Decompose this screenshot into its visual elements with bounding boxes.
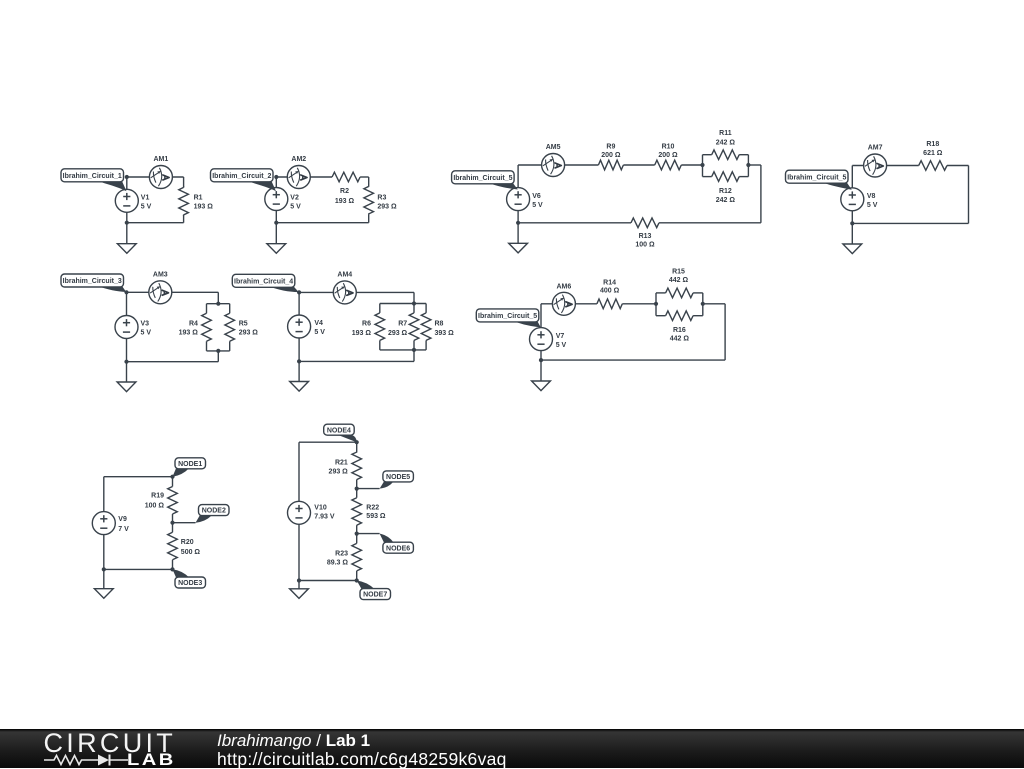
svg-text:5 V: 5 V: [532, 202, 543, 209]
svg-text:AM5: AM5: [546, 144, 561, 151]
wire R20 top lead: [172, 523, 174, 533]
wire top (V7 to R14): [541, 303, 597, 305]
net flag NODE6: [383, 542, 414, 553]
wire V7 branch: [540, 304, 542, 360]
wire R12 left lead: [703, 176, 712, 178]
circuit Ibrahim_Circuit_5 (V8): [786, 141, 969, 253]
flag tail NODE4: [338, 435, 357, 442]
svg-text:193 Ω: 193 Ω: [335, 198, 355, 205]
svg-text:Ibrahim_Circuit_4: Ibrahim_Circuit_4: [234, 278, 293, 285]
svg-text:R19: R19: [151, 493, 164, 500]
wire R21 top lead: [356, 442, 358, 452]
net flag NODE7: [360, 589, 391, 600]
svg-text:593 Ω: 593 Ω: [366, 513, 386, 520]
svg-text:193 Ω: 193 Ω: [352, 330, 372, 337]
voltage source V7 5 V: [530, 328, 553, 351]
svg-text:NODE1: NODE1: [178, 461, 202, 468]
net flag NODE5: [383, 471, 414, 482]
svg-text:293 Ω: 293 Ω: [329, 469, 349, 476]
node junction (V3 top): [124, 290, 128, 294]
svg-text:7.93 V: 7.93 V: [314, 514, 335, 521]
flag tail NODE2: [196, 515, 212, 522]
ammeter AM7: [864, 154, 887, 177]
resistor R3: [364, 186, 374, 214]
wire NODE2 stub: [173, 522, 196, 524]
svg-text:V3: V3: [141, 321, 150, 328]
node NODE5 junction: [355, 487, 359, 491]
voltage source V8 5 V: [841, 188, 864, 211]
wire NODE5 stub: [357, 488, 380, 490]
node junction (parallel right): [701, 302, 705, 306]
wire R21 bottom lead: [356, 480, 358, 489]
wire right side down: [760, 165, 762, 223]
ground (circuit V6): [509, 243, 528, 253]
wire pair top bar: [207, 303, 230, 305]
svg-text:293 Ω: 293 Ω: [388, 330, 408, 337]
node junction (V9 bottom): [102, 567, 106, 571]
footer url: [217, 751, 507, 768]
wire NODE6 stub: [357, 533, 380, 535]
svg-text:AM3: AM3: [153, 271, 168, 278]
wire V8 branch: [851, 166, 853, 224]
node junction (parallel left): [654, 302, 658, 306]
wire to right corner: [748, 164, 761, 166]
svg-text:293 Ω: 293 Ω: [377, 204, 397, 211]
ammeter AM5: [542, 154, 565, 177]
net flag NODE3: [175, 577, 206, 588]
svg-text:V8: V8: [867, 193, 876, 200]
voltage source V3 5 V: [115, 316, 138, 339]
resistor R12: [712, 172, 740, 182]
svg-text:R9: R9: [606, 144, 615, 151]
flag tail Ibrahim_Circuit_3: [97, 285, 126, 292]
svg-text:NODE5: NODE5: [386, 474, 410, 481]
ground (circuit V7): [532, 381, 551, 391]
svg-text:193 Ω: 193 Ω: [179, 330, 199, 337]
resistor R7: [409, 313, 419, 341]
wire R19 top lead: [172, 477, 174, 487]
node NODE1 junction: [170, 475, 174, 479]
net flag NODE1: [175, 458, 206, 469]
resistor R9: [598, 160, 623, 170]
ammeter AM2: [287, 166, 310, 189]
svg-text:Ibrahim_Circuit_3: Ibrahim_Circuit_3: [63, 278, 122, 285]
wire V9 branch: [103, 477, 105, 570]
node NODE7 junction: [355, 578, 359, 582]
footer bar: [0, 729, 1024, 768]
svg-text:R13: R13: [639, 233, 652, 240]
svg-text:R14: R14: [603, 279, 616, 286]
svg-text:R6: R6: [362, 321, 371, 328]
wire to right corner: [703, 303, 725, 305]
wire ground lead: [298, 581, 300, 589]
ground (circuit 3): [117, 382, 136, 392]
svg-text:621 Ω: 621 Ω: [923, 150, 943, 157]
net flag Ibrahim_Circuit_5 (V8): [786, 170, 849, 183]
resistor R18: [919, 161, 947, 171]
node junction (bank bottom): [412, 348, 416, 352]
svg-text:AM2: AM2: [291, 156, 306, 163]
wire R5 bottom lead: [229, 341, 231, 351]
net flag NODE4: [324, 424, 355, 435]
flag tail NODE7: [357, 581, 375, 590]
ground (circuit V8): [843, 244, 862, 254]
circuit Ibrahim_Circuit_4: [232, 271, 454, 391]
wire bottom return: [104, 568, 173, 570]
wire bottom return: [127, 222, 184, 224]
wire top (V3 to pair): [127, 291, 219, 293]
wire parallel left bar: [655, 293, 657, 316]
wire R6 bottom lead: [379, 340, 381, 350]
svg-text:R15: R15: [672, 268, 685, 275]
svg-text:400 Ω: 400 Ω: [600, 288, 620, 295]
svg-text:R7: R7: [398, 321, 407, 328]
node junction (pair bottom): [216, 349, 220, 353]
net flag Ibrahim_Circuit_4: [232, 274, 294, 287]
ammeter AM3: [149, 281, 172, 304]
svg-text:R16: R16: [673, 327, 686, 334]
circuit Ibrahim_Circuit_5 (V6): [452, 130, 761, 253]
wire R7 top lead: [413, 304, 415, 313]
svg-text:242 Ω: 242 Ω: [716, 197, 736, 204]
wire R8 bottom lead: [425, 340, 427, 350]
node junction (parallel right): [746, 163, 750, 167]
CircuitLab logo text CIRCUIT: [44, 733, 177, 754]
ground (circuit 1): [117, 244, 136, 254]
resistor R14: [597, 299, 622, 309]
node junction (V7 bottom): [539, 358, 543, 362]
svg-text:5 V: 5 V: [141, 204, 152, 211]
net flag Ibrahim_Circuit_2: [211, 169, 274, 182]
wire R8 top lead: [425, 304, 427, 313]
svg-text:R4: R4: [189, 321, 198, 328]
wire bottom return: [852, 222, 968, 224]
wire R14 to parallel pair: [622, 303, 656, 305]
net flag Ibrahim_Circuit_1: [61, 169, 124, 182]
wire bottom return: [299, 580, 357, 582]
wire ground lead: [298, 361, 300, 381]
voltage source V10 7.93 V: [288, 501, 311, 524]
svg-text:Ibrahim_Circuit_5: Ibrahim_Circuit_5: [478, 313, 537, 320]
wire ground lead: [517, 223, 519, 244]
net flag Ibrahim_Circuit_5 (V7): [476, 309, 539, 322]
wire V6 branch: [517, 165, 519, 223]
node junction (V4 top): [297, 290, 301, 294]
wire V4 branch: [298, 292, 300, 361]
wire ground lead: [851, 223, 853, 244]
circuit Ibrahim_Circuit_1: [61, 156, 213, 254]
node junction (V10 bottom): [297, 578, 301, 582]
resistor R10: [655, 160, 682, 170]
svg-text:R22: R22: [366, 505, 379, 512]
wire V10 branch: [298, 442, 300, 580]
wire ground lead: [126, 223, 128, 244]
wire bottom return: [276, 222, 368, 224]
wire bottom return: [541, 359, 725, 361]
wire ground lead: [103, 569, 105, 588]
wire R1 top lead: [183, 177, 185, 188]
svg-text:R1: R1: [194, 195, 203, 202]
svg-text:V10: V10: [314, 505, 327, 512]
ground (V9 divider): [94, 589, 113, 599]
node junction (V4 bottom): [297, 359, 301, 363]
svg-text:R2: R2: [340, 188, 349, 195]
wire R23 bottom lead: [356, 571, 358, 581]
wire R7 bottom lead: [413, 340, 415, 350]
flag tail NODE6: [380, 534, 394, 543]
svg-text:R18: R18: [926, 141, 939, 148]
node junction (V2 bottom): [274, 221, 278, 225]
wire R11 left lead: [703, 154, 712, 156]
wire R5 top lead: [229, 304, 231, 314]
wire R11 right lead: [739, 154, 748, 156]
wire R1 bottom lead: [183, 215, 185, 223]
svg-text:R8: R8: [435, 321, 444, 328]
wire R3 bottom lead: [368, 214, 370, 223]
svg-text:Ibrahim_Circuit_5: Ibrahim_Circuit_5: [787, 174, 846, 181]
flag tail Ibrahim_Circuit_5 (V7): [512, 320, 540, 327]
circuit Ibrahim_Circuit_2: [211, 156, 398, 254]
wire R10 to parallel pair: [681, 164, 702, 166]
node junction (V1 top): [125, 175, 129, 179]
node junction (V2 top): [274, 175, 278, 179]
svg-text:293 Ω: 293 Ω: [239, 330, 259, 337]
wire ground lead: [275, 223, 277, 244]
svg-text:100 Ω: 100 Ω: [635, 242, 655, 249]
node junction (parallel left): [700, 163, 704, 167]
ammeter AM6: [552, 292, 575, 315]
svg-text:442 Ω: 442 Ω: [669, 277, 689, 284]
wire R6 top lead: [379, 304, 381, 313]
node junction (V6 bottom): [516, 221, 520, 225]
wire parallel right bar: [702, 293, 704, 316]
flag tail Ibrahim_Circuit_5 (V8): [822, 181, 852, 189]
wire R18 to corner: [947, 165, 969, 167]
wire down to pair top: [217, 292, 219, 303]
flag tail Ibrahim_Circuit_2: [247, 180, 277, 191]
wire top (V10 to R21): [299, 441, 357, 443]
svg-text:NODE3: NODE3: [178, 580, 202, 587]
wire R23 top lead: [356, 534, 358, 544]
svg-text:R10: R10: [662, 144, 675, 151]
svg-text:NODE6: NODE6: [386, 545, 410, 552]
voltage source V1 5 V: [115, 189, 138, 212]
svg-text:200 Ω: 200 Ω: [658, 152, 678, 159]
svg-text:R20: R20: [181, 539, 194, 546]
wire R22 bottom lead: [356, 525, 358, 533]
resistor R15: [666, 288, 694, 298]
resistor R11: [712, 150, 740, 160]
node junction (V8 bottom): [850, 221, 854, 225]
svg-text:NODE4: NODE4: [327, 427, 351, 434]
wire R19 bottom lead: [172, 514, 174, 523]
voltage source V9 7 V: [92, 512, 115, 535]
svg-text:AM4: AM4: [337, 271, 352, 278]
svg-text:AM6: AM6: [557, 284, 572, 291]
svg-text:442 Ω: 442 Ω: [670, 335, 690, 342]
wire top (V1 to R1): [127, 176, 184, 178]
svg-text:R23: R23: [335, 551, 348, 558]
resistor R13: [631, 218, 659, 228]
wire parallel left bar: [702, 155, 704, 177]
svg-text:NODE7: NODE7: [363, 592, 387, 599]
wire R4 top lead: [206, 304, 208, 314]
resistor R23: [352, 543, 362, 571]
ground (circuit 2): [267, 244, 286, 254]
wire top (V6 to R9): [518, 164, 598, 166]
svg-text:100 Ω: 100 Ω: [145, 503, 165, 510]
wire R2 to corner: [360, 176, 369, 178]
svg-text:200 Ω: 200 Ω: [601, 152, 621, 159]
svg-text:R3: R3: [377, 195, 386, 202]
svg-text:R5: R5: [239, 321, 248, 328]
voltage source V4 5 V: [288, 315, 311, 338]
flag tail NODE3: [173, 569, 190, 577]
wire bottom return: [127, 361, 219, 363]
wire bank bottom to return: [413, 350, 415, 362]
wire top (V9 to R19): [104, 476, 173, 478]
node junction (pair top): [216, 302, 220, 306]
svg-text:V7: V7: [556, 333, 565, 340]
resistor R8: [421, 313, 431, 341]
svg-text:Ibrahim_Circuit_2: Ibrahim_Circuit_2: [212, 173, 271, 180]
wire R16 left lead: [656, 315, 666, 317]
svg-text:5 V: 5 V: [290, 204, 301, 211]
resistor R6: [375, 313, 385, 341]
wire R15 left lead: [656, 292, 666, 294]
wire down to bank top: [413, 292, 415, 303]
resistor R4: [202, 313, 212, 341]
footer title: [217, 733, 370, 749]
wire R9 to R10: [623, 164, 654, 166]
svg-text:AM7: AM7: [868, 145, 883, 152]
wire V3 branch: [126, 292, 128, 361]
circuit V9 voltage divider: [92, 458, 229, 599]
resistor R16: [666, 311, 694, 321]
wire right side down: [968, 166, 970, 224]
wire R13 to corner: [659, 222, 761, 224]
resistor R19: [168, 487, 178, 515]
svg-text:V9: V9: [118, 516, 127, 523]
ground (circuit 4): [290, 382, 309, 392]
wire R4 bottom lead: [206, 341, 208, 351]
flag tail Ibrahim_Circuit_5 (V6): [488, 182, 518, 190]
wire R15 right lead: [693, 292, 703, 294]
wire R20 bottom lead: [172, 560, 174, 570]
circuit Ibrahim_Circuit_3: [61, 271, 258, 391]
svg-text:89.3 Ω: 89.3 Ω: [327, 559, 349, 566]
svg-text:193 Ω: 193 Ω: [194, 204, 214, 211]
node NODE3 junction: [170, 567, 174, 571]
svg-text:5 V: 5 V: [867, 202, 878, 209]
CircuitLab logo resistor+diode glyph: [44, 752, 129, 768]
svg-text:7 V: 7 V: [118, 526, 129, 533]
svg-text:5 V: 5 V: [141, 330, 152, 337]
wire bank bottom bar: [380, 349, 426, 351]
resistor R21: [352, 452, 362, 480]
resistor R20: [168, 532, 178, 560]
wire top (V8 to R18): [852, 165, 918, 167]
resistor R1: [179, 187, 189, 215]
wire pair bottom bar: [207, 350, 230, 352]
ammeter AM4: [333, 281, 356, 304]
resistor R5: [225, 313, 235, 341]
wire R22 top lead: [356, 489, 358, 498]
svg-text:V4: V4: [314, 320, 323, 327]
voltage source V2 5 V: [265, 188, 288, 211]
svg-text:V6: V6: [532, 193, 541, 200]
svg-text:R21: R21: [335, 460, 348, 467]
wire ground lead: [540, 360, 542, 381]
flag tail Ibrahim_Circuit_4: [268, 286, 298, 293]
wire bank top bar: [380, 303, 426, 305]
svg-text:242 Ω: 242 Ω: [716, 140, 736, 147]
svg-text:5 V: 5 V: [556, 342, 567, 349]
wire V1 branch: [126, 177, 128, 223]
wire right side down: [724, 304, 726, 360]
wire pair bottom to return: [217, 351, 219, 362]
net flag Ibrahim_Circuit_3: [61, 274, 124, 287]
wire V2 branch: [275, 177, 277, 223]
svg-text:V1: V1: [141, 195, 150, 202]
node NODE2 junction: [170, 521, 174, 525]
svg-text:V2: V2: [290, 195, 299, 202]
ammeter AM1: [149, 166, 172, 189]
logo text LAB: [127, 753, 176, 767]
wire bottom return: [299, 360, 414, 362]
net flag NODE2: [199, 505, 230, 516]
wire bottom (to R13): [518, 222, 631, 224]
svg-text:R11: R11: [719, 130, 732, 137]
flag tail Ibrahim_Circuit_1: [97, 180, 127, 191]
node junction (V1 bottom): [125, 221, 129, 225]
wire R3 top lead: [368, 177, 370, 186]
node junction (bank top): [412, 301, 416, 305]
node NODE4 junction: [355, 440, 359, 444]
svg-text:AM1: AM1: [154, 156, 169, 163]
wire top (V4 to bank): [299, 291, 414, 293]
svg-text:Ibrahim_Circuit_1: Ibrahim_Circuit_1: [63, 173, 122, 180]
wire parallel right bar: [747, 155, 749, 177]
ground (V10 divider): [290, 589, 309, 599]
resistor R22: [352, 498, 362, 526]
net flag Ibrahim_Circuit_5 (V6): [452, 171, 514, 184]
circuit V10 voltage divider: [288, 424, 414, 599]
svg-text:R12: R12: [719, 188, 732, 195]
wire ground lead: [126, 362, 128, 382]
flag tail NODE5: [380, 482, 394, 489]
svg-text:500 Ω: 500 Ω: [181, 549, 201, 556]
flag tail NODE1: [173, 468, 190, 476]
circuit Ibrahim_Circuit_5 (V7): [476, 268, 725, 390]
svg-text:393 Ω: 393 Ω: [435, 330, 455, 337]
wire R16 right lead: [693, 315, 703, 317]
wire R12 right lead: [739, 176, 748, 178]
voltage source V6 5 V: [507, 188, 530, 211]
node NODE6 junction: [355, 532, 359, 536]
resistor R2: [332, 172, 360, 182]
svg-text:5 V: 5 V: [314, 329, 325, 336]
svg-text:NODE2: NODE2: [202, 508, 226, 515]
node junction (V3 bottom): [124, 360, 128, 364]
svg-text:Ibrahim_Circuit_5: Ibrahim_Circuit_5: [453, 175, 512, 182]
wire top (V2 to R2): [276, 176, 332, 178]
